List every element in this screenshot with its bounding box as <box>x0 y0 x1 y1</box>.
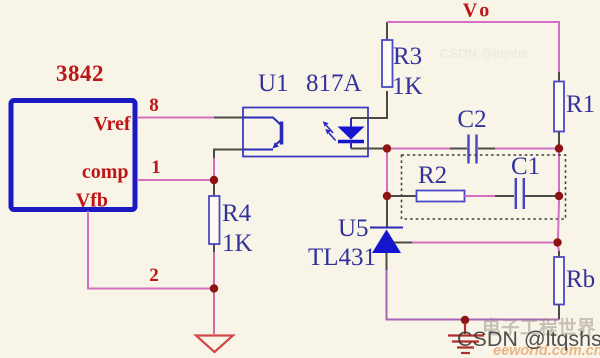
wire pin1 comp to node A <box>137 179 210 181</box>
wire node E to R2 <box>391 195 416 197</box>
transistor Q1 collector line <box>243 118 282 126</box>
wire R1 bottom pin <box>558 132 560 145</box>
TL431 U5 cathode bar <box>370 227 403 229</box>
svg-text:R4: R4 <box>222 200 252 227</box>
svg-text:R3: R3 <box>393 43 422 70</box>
op-amp U1 817A optocoupler body <box>243 108 368 157</box>
svg-text:3842: 3842 <box>56 61 104 86</box>
wire node F to node G <box>558 200 559 239</box>
wire node C to node E <box>386 153 388 193</box>
wire pin2 Vfb down and right <box>88 211 210 289</box>
svg-text:Vfb: Vfb <box>76 190 108 212</box>
svg-text:R1: R1 <box>566 91 595 118</box>
wire C1 right pin <box>525 195 555 197</box>
wire C1 left pin <box>495 195 514 197</box>
svg-text:C2: C2 <box>457 106 486 133</box>
wire C2 right pin <box>478 148 495 150</box>
wire R3 top pin <box>386 22 388 40</box>
svg-text:U5: U5 <box>338 215 369 242</box>
LED D1 cathode lead <box>350 142 352 149</box>
wire TL431 ref dark segment <box>394 242 412 244</box>
capacitor C2 <box>467 135 469 164</box>
svg-text:1: 1 <box>151 157 161 178</box>
node A junction pin1/R4 <box>210 176 218 184</box>
wire R4 bottom pin <box>213 244 215 252</box>
svg-text:C1: C1 <box>511 153 540 180</box>
LED D1 cathode bar <box>338 140 364 143</box>
transistor Q1 emitter line <box>243 149 273 151</box>
wire R2 to C1 pink <box>465 195 496 197</box>
wire node E to TL431 cathode <box>386 200 388 227</box>
svg-text:CSDN @ltqshs: CSDN @ltqshs <box>440 46 528 61</box>
node F junction C1 right <box>555 192 563 200</box>
svg-text:Rb: Rb <box>566 266 595 293</box>
wire C2 to node D <box>495 148 555 150</box>
wire C2 left pin <box>450 148 467 150</box>
svg-text:U1: U1 <box>258 70 289 97</box>
transistor Q1 emitter with arrow <box>275 140 282 146</box>
LED D1 triangle <box>338 127 365 140</box>
wire TL431 anode down <box>386 253 388 270</box>
LED arrow 2 <box>329 133 336 141</box>
node D junction R1/C2 <box>555 144 563 152</box>
wire node A to opto emitter <box>213 157 215 177</box>
svg-text:1K: 1K <box>392 73 423 100</box>
svg-text:TL431: TL431 <box>308 244 376 271</box>
wire Rb top pin <box>558 251 560 257</box>
wire R4 to ground node <box>213 252 215 285</box>
node E junction R2 row left <box>383 192 391 200</box>
svg-text:CSDN @ltqshs: CSDN @ltqshs <box>457 327 600 351</box>
LED D1 anode lead <box>350 118 352 127</box>
resistor Rb <box>554 257 564 305</box>
resistor R1 <box>554 82 564 132</box>
dashed compensation network box <box>402 155 566 219</box>
node B junction pin2/ground <box>210 284 218 292</box>
wire pin8 Vref to opto <box>137 117 214 119</box>
svg-text:817A: 817A <box>306 70 362 97</box>
transistor Q1 base bar <box>280 122 284 145</box>
TL431 U5 triangle <box>372 230 401 254</box>
wire pin8 dark pin segment <box>214 117 243 119</box>
wire R1 top pin <box>558 72 560 82</box>
capacitor C1 <box>515 178 517 209</box>
ground (triangle) <box>196 336 233 353</box>
wire dark segment to opto emitter <box>214 150 243 159</box>
wire node B to ground <box>213 293 215 335</box>
svg-text:R2: R2 <box>418 162 447 189</box>
wire node D to node F <box>558 153 560 193</box>
resistor R3 <box>382 40 393 87</box>
wire LED cathode to node C <box>351 148 383 150</box>
wire TL431 anode to bottom rail <box>387 270 462 320</box>
node G junction ref/R1/Rb <box>553 238 561 246</box>
svg-text:2: 2 <box>149 265 159 286</box>
ground (earth bars) <box>448 334 484 336</box>
resistor R2 <box>417 191 465 202</box>
wire R4 top pin <box>213 184 215 196</box>
wire Rb bottom pin <box>558 305 560 320</box>
wire LED anode to R3 <box>351 91 387 118</box>
wire bottom rail right <box>461 319 559 321</box>
wire Vo top rail <box>387 22 559 72</box>
svg-text:1K: 1K <box>222 230 253 257</box>
svg-text:Vref: Vref <box>93 113 130 135</box>
resistor R4 <box>209 196 220 244</box>
wire node C to C2 <box>391 148 450 150</box>
svg-text:comp: comp <box>82 161 129 183</box>
node H junction ground <box>461 316 469 324</box>
svg-text:8: 8 <box>149 95 159 116</box>
svg-text:Vo: Vo <box>463 0 494 22</box>
ground stub <box>464 323 466 334</box>
wire TL431 ref to node G <box>412 242 553 244</box>
node C junction LED/C2 <box>383 144 391 152</box>
IC U2 3842 box <box>11 101 135 210</box>
LED arrow 1 <box>327 126 334 134</box>
wire node G to Rb <box>558 247 559 252</box>
